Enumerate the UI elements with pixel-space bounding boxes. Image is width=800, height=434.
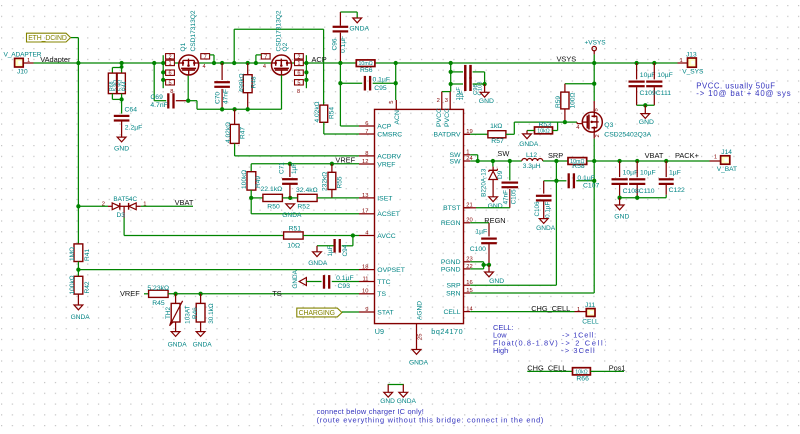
svg-text:4: 4 <box>263 64 266 70</box>
svg-text:-> 3Cell: -> 3Cell <box>561 346 595 355</box>
svg-text:ETH_DCIND: ETH_DCIND <box>28 35 67 42</box>
svg-text:1MΩ: 1MΩ <box>69 247 76 261</box>
svg-text:11: 11 <box>362 276 368 282</box>
junction <box>186 99 190 103</box>
svg-text:GNDA: GNDA <box>308 260 328 267</box>
capacitor C98 <box>456 65 472 101</box>
wire ISET <box>332 197 359 199</box>
svg-text:100kΩ: 100kΩ <box>69 275 76 294</box>
svg-text:AGND: AGND <box>416 301 423 320</box>
junction <box>246 107 250 111</box>
svg-text:1kΩ: 1kΩ <box>490 123 502 130</box>
svg-text:GND: GND <box>114 146 129 153</box>
svg-text:R54: R54 <box>328 107 335 119</box>
svg-text:TTC: TTC <box>377 279 390 286</box>
ground <box>485 272 505 285</box>
capacitor C64 <box>114 107 143 132</box>
resistor R51 <box>284 226 304 250</box>
wire ACDRV <box>235 143 359 156</box>
svg-text:AVCC: AVCC <box>377 233 395 240</box>
svg-text:2: 2 <box>595 134 601 137</box>
svg-text:R41: R41 <box>84 249 91 261</box>
svg-text:GNDA: GNDA <box>409 360 429 367</box>
svg-text:C93: C93 <box>338 283 351 290</box>
svg-text:PGND: PGND <box>441 266 461 273</box>
wire <box>451 72 463 84</box>
svg-text:GND: GND <box>488 203 503 210</box>
capacitor C108 <box>612 161 639 198</box>
wire OVPSET <box>78 269 359 271</box>
transistor Q3 CSD25402Q3A <box>576 108 651 138</box>
ground <box>384 392 393 397</box>
junction <box>161 70 165 74</box>
svg-text:(route everything without this: (route everything without this bridge: c… <box>317 415 545 424</box>
svg-text:SRP: SRP <box>548 151 563 160</box>
svg-text:9: 9 <box>365 307 368 313</box>
wire PGND join <box>470 262 489 269</box>
note CELL options <box>493 323 559 355</box>
resistor R59 <box>555 84 576 109</box>
junction <box>161 78 165 82</box>
svg-text:3.3µH: 3.3µH <box>523 163 541 170</box>
wire <box>303 235 359 237</box>
wire <box>637 104 655 106</box>
svg-text:GND: GND <box>489 278 504 285</box>
transistor Q2 pins 2/1/6/5 <box>295 54 304 96</box>
wire <box>221 63 223 80</box>
resistor R44 <box>117 73 128 94</box>
resistor R57 <box>464 123 506 145</box>
svg-text:5: 5 <box>389 101 395 104</box>
svg-text:CHG_CELL: CHG_CELL <box>531 304 570 313</box>
svg-text:8: 8 <box>297 89 300 95</box>
wire ACSET <box>251 213 359 215</box>
svg-text:13: 13 <box>362 193 368 199</box>
junction <box>76 267 80 271</box>
svg-text:GNDA: GNDA <box>292 269 299 288</box>
junction <box>246 61 250 65</box>
svg-text:GNDA: GNDA <box>519 141 539 148</box>
wire <box>247 63 249 75</box>
label ACP <box>312 55 327 64</box>
label VSYS <box>557 55 577 64</box>
svg-text:D9: D9 <box>497 170 504 179</box>
note PVCC <box>696 81 791 98</box>
junction <box>212 61 216 65</box>
wire ACP riser <box>340 63 359 126</box>
wire <box>342 311 359 313</box>
wire <box>175 322 177 332</box>
svg-text:B220A-13: B220A-13 <box>481 168 488 197</box>
svg-text:2: 2 <box>437 98 440 104</box>
junction <box>635 159 639 163</box>
wire BTST <box>464 207 510 209</box>
note bridge 2 <box>317 415 545 424</box>
label C108 C110 <box>623 188 655 195</box>
wire <box>553 122 558 130</box>
svg-text:R50: R50 <box>267 204 280 211</box>
junction <box>152 61 156 65</box>
junction <box>304 78 308 82</box>
wire <box>565 83 594 85</box>
wire Q2 pin bundle <box>305 55 307 88</box>
capacitor C71 <box>279 162 298 198</box>
wire <box>121 99 123 113</box>
wire <box>121 121 123 138</box>
svg-text:47nF: 47nF <box>222 89 229 104</box>
svg-text:SW: SW <box>450 158 462 165</box>
svg-text:bq24170: bq24170 <box>431 327 463 336</box>
ground GNDA <box>193 332 213 349</box>
junction <box>304 70 308 74</box>
thermistor TH2 <box>165 294 192 326</box>
ground <box>614 205 629 220</box>
svg-text:2.2µF: 2.2µF <box>125 125 143 132</box>
label REGN <box>484 216 505 225</box>
svg-text:VREF: VREF <box>377 161 395 168</box>
svg-text:25: 25 <box>418 334 424 340</box>
wire <box>527 131 535 134</box>
wire GND bridge <box>388 385 404 393</box>
wire VREF <box>251 163 359 165</box>
svg-text:1µF: 1µF <box>475 229 487 236</box>
svg-text:C105: C105 <box>511 189 518 205</box>
svg-text:30.1kΩ: 30.1kΩ <box>208 303 215 324</box>
diode D9 B220A-13 <box>481 161 505 197</box>
resistor R54 <box>314 101 335 122</box>
svg-text:10Ω: 10Ω <box>287 242 300 249</box>
wire <box>250 164 252 172</box>
wire <box>306 281 321 283</box>
svg-text:ISET: ISET <box>377 195 392 202</box>
svg-text:Q3: Q3 <box>604 122 613 129</box>
ground GNDA <box>519 134 539 148</box>
junction <box>664 159 668 163</box>
svg-text:1: 1 <box>297 61 300 67</box>
svg-text:R57: R57 <box>491 138 504 145</box>
svg-text:100kΩ: 100kΩ <box>241 170 248 189</box>
svg-text:R51: R51 <box>289 226 302 233</box>
wire SRN to pin15 <box>470 292 594 294</box>
resistor R52 <box>296 187 318 210</box>
svg-text:2: 2 <box>297 54 300 60</box>
ground GNDA <box>71 305 91 321</box>
svg-text:100Ω: 100Ω <box>570 92 577 108</box>
wire <box>71 38 79 63</box>
wire <box>250 190 252 214</box>
junction <box>232 107 236 111</box>
svg-text:Q2: Q2 <box>282 42 289 51</box>
svg-text:R59: R59 <box>555 96 562 108</box>
svg-text:10: 10 <box>362 289 368 295</box>
transistor Q1 pin 7/4 <box>201 54 214 70</box>
svg-text:CMSRC: CMSRC <box>377 131 402 138</box>
resistor R45 <box>147 285 169 307</box>
svg-text:CELL: CELL <box>582 319 599 326</box>
capacitor C122 <box>659 161 685 198</box>
svg-text:R55: R55 <box>336 176 343 188</box>
junction <box>487 263 491 267</box>
junction <box>351 233 355 237</box>
junction <box>652 61 656 65</box>
svg-text:1: 1 <box>714 155 717 161</box>
svg-text:R53: R53 <box>539 122 552 129</box>
capacitor C106 <box>534 181 556 219</box>
svg-text:V_ADAPTER: V_ADAPTER <box>4 52 42 59</box>
svg-text:REGN: REGN <box>441 220 461 227</box>
junction <box>120 65 124 69</box>
ground GNDA <box>349 18 369 33</box>
resistor R49 <box>241 170 262 190</box>
wire <box>619 198 621 205</box>
svg-text:BTST: BTST <box>443 205 460 212</box>
junction <box>232 61 236 65</box>
wire <box>154 63 166 101</box>
wire <box>488 265 490 272</box>
wire SRP to pin16 <box>470 284 556 286</box>
wire <box>527 370 572 372</box>
svg-text:C110: C110 <box>639 188 655 195</box>
svg-text:V_BAT: V_BAT <box>717 166 737 173</box>
svg-text:1µF: 1µF <box>327 245 334 256</box>
svg-text:TH2: TH2 <box>165 306 172 319</box>
svg-text:499kΩ: 499kΩ <box>239 73 246 92</box>
wire Q3 gate <box>565 122 582 124</box>
junction <box>249 196 253 200</box>
resistor R47 <box>225 122 247 144</box>
svg-text:C71: C71 <box>279 162 286 174</box>
wire <box>543 160 568 162</box>
wire <box>331 164 333 173</box>
svg-text:0.1µF: 0.1µF <box>577 175 595 182</box>
wire bypass over Q2 <box>234 29 323 105</box>
inductor L12 <box>522 152 543 170</box>
wire VBAT stub <box>141 205 193 207</box>
wire AVCC <box>124 218 284 236</box>
junction <box>476 159 480 163</box>
svg-text:High: High <box>493 346 508 355</box>
svg-text:CSD25402Q3A: CSD25402Q3A <box>604 132 651 139</box>
pin 1 wire of J10 <box>23 62 33 64</box>
junction <box>198 292 202 296</box>
svg-text:1: 1 <box>466 150 469 156</box>
svg-text:232kΩ: 232kΩ <box>322 172 329 191</box>
wire <box>77 294 79 305</box>
svg-text:10µF: 10µF <box>640 72 656 79</box>
resistor R66 10kΩ <box>573 368 591 383</box>
svg-text:U9: U9 <box>375 327 384 336</box>
svg-text:PVCC: PVCC <box>444 108 451 127</box>
svg-text:C106: C106 <box>534 201 541 217</box>
junction <box>220 107 224 111</box>
svg-text:C100: C100 <box>470 246 486 253</box>
svg-text:CELL: CELL <box>443 309 460 316</box>
wire CMSRC <box>324 122 359 134</box>
global label CHARGING <box>297 308 342 317</box>
wire <box>317 246 334 252</box>
IC U9 bq24170 body <box>375 109 464 323</box>
label Pos1 <box>609 363 626 372</box>
ground GNDA <box>308 252 328 267</box>
wire <box>373 82 396 84</box>
svg-text:10µF: 10µF <box>657 72 673 79</box>
ground <box>488 197 503 210</box>
ground <box>114 137 129 152</box>
junction <box>554 159 558 163</box>
svg-text:4.7nF: 4.7nF <box>150 102 167 109</box>
resistor R56 10mΩ <box>356 60 375 74</box>
svg-text:VREF: VREF <box>120 289 140 298</box>
svg-text:17: 17 <box>362 209 368 215</box>
svg-text:C108: C108 <box>623 188 639 195</box>
junction <box>592 159 596 163</box>
ground GNDA <box>536 219 556 233</box>
svg-text:12: 12 <box>362 159 368 165</box>
label VREF <box>120 289 140 298</box>
svg-text:C69: C69 <box>150 94 163 101</box>
junction <box>338 81 342 85</box>
resistor R48 <box>239 73 258 92</box>
junction <box>288 196 292 200</box>
wire <box>200 322 202 332</box>
junction <box>482 82 486 86</box>
label Q2 CSD17313Q2 <box>276 10 289 51</box>
transistor Q1 pins 2/1/6/5 <box>166 54 175 96</box>
svg-text:GNDA: GNDA <box>168 341 188 348</box>
capacitor C109 <box>629 63 656 105</box>
svg-text:7: 7 <box>264 54 267 60</box>
connector J11 <box>575 302 600 326</box>
resistor R58 10mΩ <box>568 158 587 171</box>
junction <box>394 61 398 65</box>
note cell counts <box>561 331 608 356</box>
label U9 <box>375 327 384 336</box>
resistor R41 <box>69 206 91 261</box>
svg-text:103AT: 103AT <box>185 305 192 323</box>
wire <box>564 109 566 122</box>
svg-text:REGN: REGN <box>484 216 505 225</box>
wire <box>77 63 79 206</box>
transistor Q1 <box>179 55 199 75</box>
junction <box>119 97 123 101</box>
capacitor C110 <box>629 161 656 198</box>
svg-text:VSYS: VSYS <box>557 55 577 64</box>
svg-text:CSD17313Q2: CSD17313Q2 <box>190 10 197 51</box>
svg-text:0.1µF: 0.1µF <box>373 77 391 84</box>
wire Q1 pin bundle <box>162 55 164 88</box>
svg-text:VBAT: VBAT <box>175 198 194 207</box>
wire Q2 gate <box>281 75 283 109</box>
wire REGN <box>470 223 489 237</box>
junction <box>634 61 638 65</box>
connector J14 <box>710 149 738 173</box>
ground GNDA <box>168 332 188 349</box>
wire <box>340 82 362 84</box>
capacitor C95 <box>364 76 390 92</box>
capacitor C111 <box>646 63 673 105</box>
svg-text:GNDA: GNDA <box>397 398 417 405</box>
svg-text:R44: R44 <box>122 81 128 91</box>
svg-text:5: 5 <box>594 108 600 111</box>
wire main VAdapter rail <box>34 62 678 64</box>
resistor R68 <box>108 73 119 94</box>
svg-text:GNDA: GNDA <box>282 212 302 219</box>
svg-text:6: 6 <box>297 71 300 77</box>
svg-text:SRP: SRP <box>447 283 461 290</box>
svg-text:6: 6 <box>168 71 171 77</box>
svg-text:GND: GND <box>479 98 494 105</box>
ground <box>479 92 494 105</box>
svg-text:VREF: VREF <box>335 156 355 165</box>
svg-text:0.1µF: 0.1µF <box>340 36 347 53</box>
svg-text:GND: GND <box>639 119 654 126</box>
label V_ADAPTER <box>4 52 42 59</box>
svg-text:STAT: STAT <box>377 309 393 316</box>
wire <box>144 293 149 295</box>
svg-text:GND: GND <box>614 213 629 220</box>
label GND GNDA <box>380 398 416 405</box>
wire <box>221 89 223 109</box>
svg-text:PVCC: PVCC <box>436 108 443 127</box>
capacitor C70 <box>214 81 230 104</box>
wire <box>340 12 357 26</box>
wire <box>644 105 646 113</box>
label TS <box>272 289 282 298</box>
label bq24170 <box>431 327 463 336</box>
svg-text:C109: C109 <box>640 90 656 97</box>
IC left pins ACP CMSRC ACDRV VREF ISET ACSET AVCC OVPSET TTC TS STAT <box>359 121 405 317</box>
svg-text:R66: R66 <box>576 376 589 383</box>
svg-text:CHARGING: CHARGING <box>299 310 335 317</box>
capacitor C100 <box>470 229 497 253</box>
junction <box>554 179 558 183</box>
junction <box>338 61 342 65</box>
svg-text:J10: J10 <box>17 69 28 76</box>
wire <box>112 63 121 73</box>
wire SW rail <box>470 160 522 162</box>
svg-text:22.1kΩ: 22.1kΩ <box>261 186 283 193</box>
svg-text:C111: C111 <box>656 90 671 97</box>
IC top pins ACN PVCC PVCC <box>389 98 451 127</box>
svg-text:Q1: Q1 <box>180 42 187 51</box>
svg-text:C96: C96 <box>331 38 338 50</box>
capacitor C103 <box>459 65 483 101</box>
wire Q1 gate <box>188 75 197 109</box>
wire <box>484 84 486 92</box>
wire CELL <box>470 311 574 313</box>
svg-text:4: 4 <box>202 64 205 70</box>
junction <box>508 159 512 163</box>
svg-text:R46: R46 <box>192 307 199 319</box>
svg-text:2: 2 <box>168 54 171 60</box>
wire ACN riser <box>395 63 398 109</box>
svg-text:C70: C70 <box>214 92 221 104</box>
svg-text:C122: C122 <box>669 187 685 194</box>
svg-text:0.1µF: 0.1µF <box>544 202 551 218</box>
svg-text:1µF: 1µF <box>459 90 465 101</box>
wire PVCC pins <box>442 92 451 110</box>
wire SRP riser <box>555 161 557 285</box>
wire <box>247 93 249 110</box>
label VBAT <box>645 151 664 160</box>
wire VSYS to Q3 <box>593 63 595 112</box>
svg-text:6: 6 <box>365 121 368 127</box>
label VAdapter <box>40 55 71 64</box>
junction <box>449 61 453 65</box>
capacitor C107 <box>556 173 599 189</box>
junction <box>76 204 80 208</box>
capacitor C105 <box>502 161 519 208</box>
